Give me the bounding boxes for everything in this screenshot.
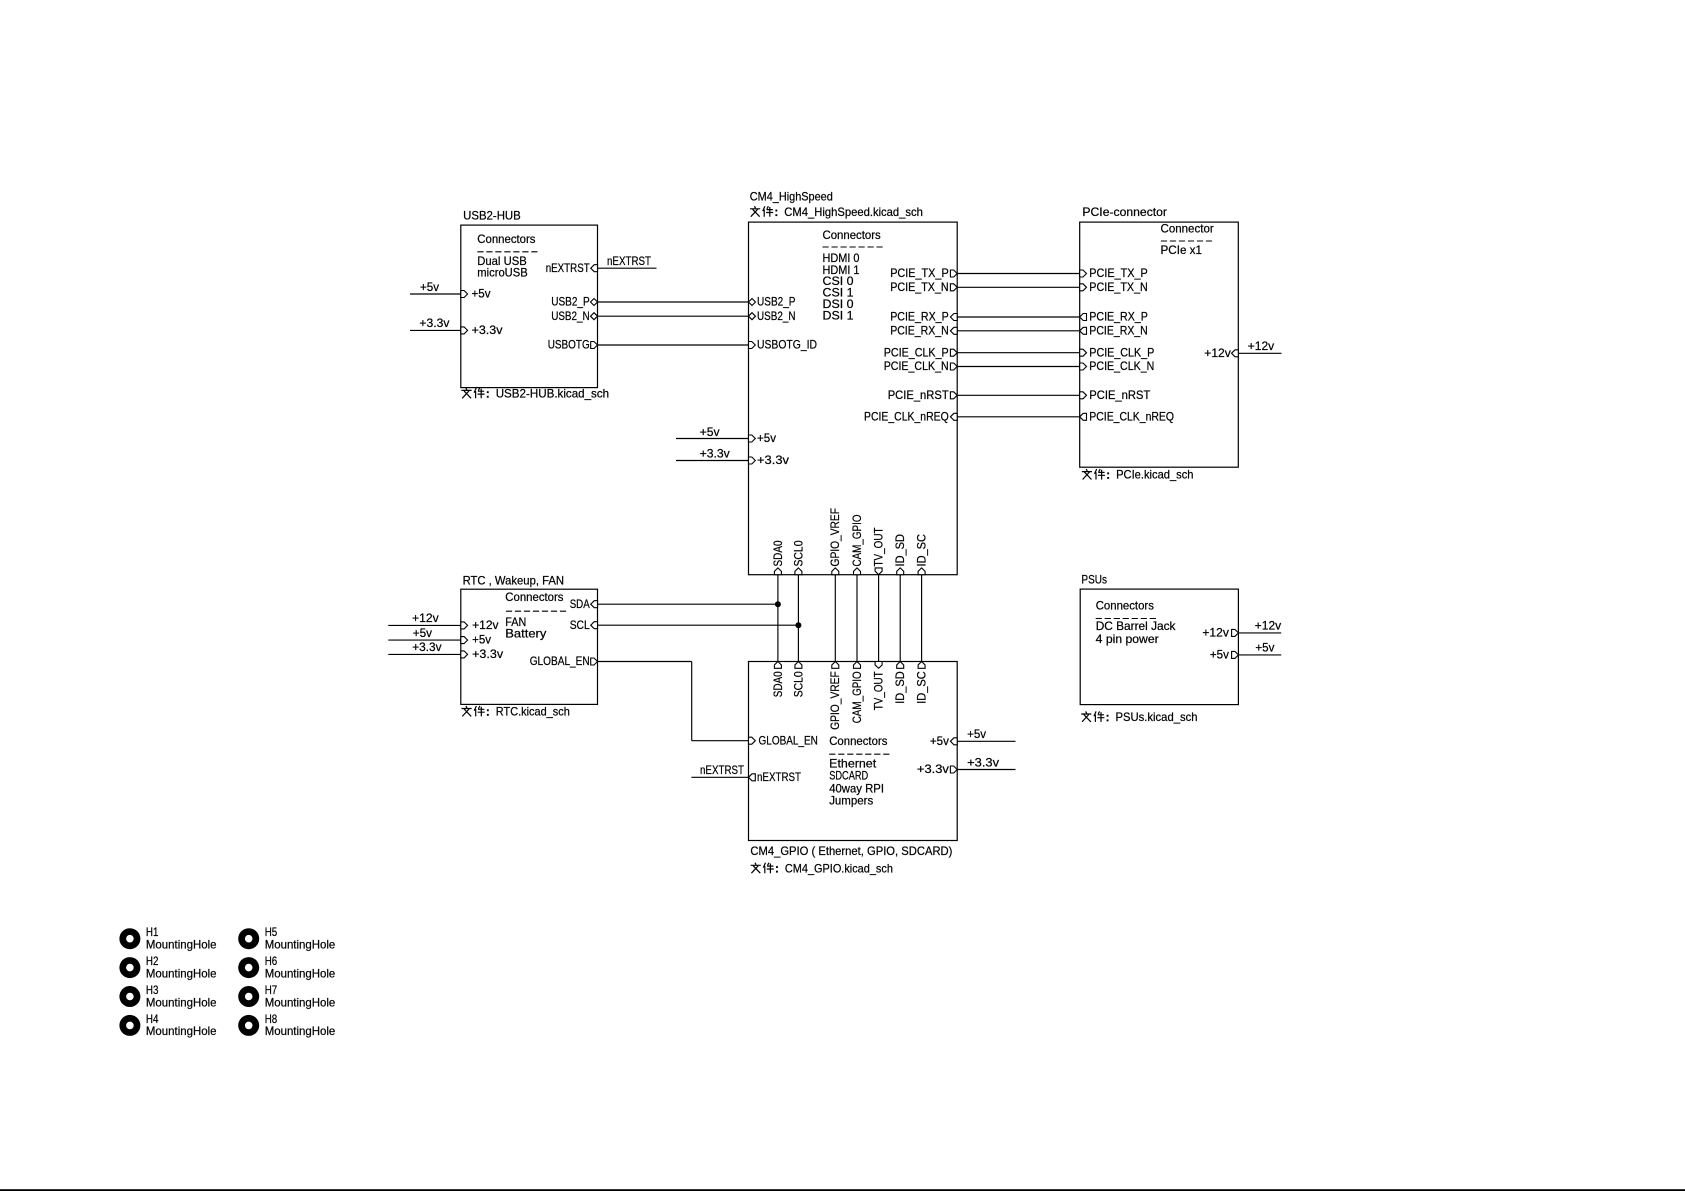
- mounting hole H5: [238, 925, 335, 951]
- svg-text:+5v: +5v: [700, 425, 720, 439]
- hierarchical sheet CM4_GPIO: [749, 662, 958, 859]
- svg-text:+12v: +12v: [1204, 346, 1231, 360]
- mounting hole H8: [238, 1012, 335, 1038]
- sheet pin SDA0 (CM4_GPIO top): [771, 662, 785, 698]
- hierarchical sheet CM4_HighSpeed: [749, 190, 958, 575]
- mounting hole H7: [238, 983, 335, 1009]
- svg-text:+12v: +12v: [1255, 619, 1282, 633]
- sheet pin CAM_GPIO (CM4_GPIO top): [850, 662, 864, 724]
- svg-text:Connectors: Connectors: [829, 734, 887, 748]
- wire +3.3v into RTC: [388, 653, 461, 655]
- svg-text:PCIE_nRST: PCIE_nRST: [888, 388, 950, 402]
- sheet pin PCIE_RX_N (CM4_HighSpeed right): [890, 323, 957, 337]
- wire TV_OUT (CM4_HighSpeed to CM4_GPIO): [878, 575, 880, 662]
- svg-text:microUSB: microUSB: [477, 265, 527, 279]
- svg-text:SDA0: SDA0: [771, 540, 785, 566]
- junction SCL: [795, 622, 801, 628]
- wire +5v into USB2-HUB: [410, 293, 461, 295]
- svg-text:+3.3v: +3.3v: [967, 755, 999, 769]
- svg-text:+5v: +5v: [1255, 641, 1274, 655]
- sheet pin PCIE_TX_N (PCIe-connector left): [1080, 280, 1148, 294]
- wire +3.3v into CM4_HighSpeed: [676, 460, 749, 462]
- svg-text:CAM_GPIO: CAM_GPIO: [850, 671, 864, 723]
- wire GLOBAL_EN horizontal from RTC: [598, 661, 692, 663]
- svg-text:+3.3v: +3.3v: [472, 647, 503, 661]
- wire +12v from PCIe-connector: [1238, 352, 1281, 354]
- sheet pin CAM_GPIO (CM4_HighSpeed bottom): [850, 515, 864, 575]
- svg-text:SCL0: SCL0: [791, 671, 805, 697]
- svg-text:PCIE_nRST: PCIE_nRST: [1089, 388, 1151, 402]
- svg-text:PCIE_RX_N: PCIE_RX_N: [1089, 323, 1148, 337]
- svg-text:ID_SC: ID_SC: [915, 671, 929, 704]
- svg-text:PCIE_TX_P: PCIE_TX_P: [1089, 266, 1148, 280]
- svg-text:+5v: +5v: [472, 287, 491, 301]
- svg-text:PCIE_CLK_N: PCIE_CLK_N: [1089, 359, 1154, 373]
- sheet pin +5v (RTC left): [461, 633, 491, 647]
- svg-text:MountingHole: MountingHole: [146, 995, 217, 1009]
- wire PCIE_CLK_nREQ (CM4_HighSpeed to PCIe-connector): [957, 416, 1079, 418]
- svg-text:MountingHole: MountingHole: [265, 1024, 336, 1038]
- svg-text:RTC.kicad_sch: RTC.kicad_sch: [496, 705, 570, 719]
- sheet file label USB2-HUB.kicad_sch: [461, 386, 609, 400]
- hierarchical sheet RTC Wakeup FAN: [461, 574, 598, 705]
- svg-text:PSUs.kicad_sch: PSUs.kicad_sch: [1116, 710, 1198, 724]
- svg-text:4 pin power: 4 pin power: [1096, 632, 1159, 646]
- svg-text:+5v: +5v: [967, 727, 986, 741]
- wire ID_SD (CM4_HighSpeed to CM4_GPIO): [899, 575, 901, 662]
- wire SCL (RTC to SCL0 bus): [598, 624, 799, 626]
- wire +3.3v into USB2-HUB: [410, 329, 461, 331]
- wire nEXTRST into CM4_GPIO: [691, 776, 748, 778]
- svg-text:PCIE_CLK_P: PCIE_CLK_P: [1089, 345, 1154, 359]
- sheet pin PCIE_nRST (PCIe-connector left): [1080, 388, 1151, 402]
- svg-text:nEXTRST: nEXTRST: [700, 763, 745, 777]
- svg-text:+12v: +12v: [1202, 626, 1229, 640]
- sheet pin TV_OUT (CM4_GPIO top): [872, 662, 886, 711]
- svg-text:Jumpers: Jumpers: [829, 793, 873, 807]
- svg-text:MountingHole: MountingHole: [265, 938, 336, 952]
- sheet pin ID_SD (CM4_HighSpeed bottom): [893, 534, 907, 575]
- svg-text:+3.3v: +3.3v: [472, 323, 503, 337]
- svg-text:+5v: +5v: [413, 626, 432, 640]
- sheet pin SDA0 (CM4_HighSpeed bottom): [771, 540, 785, 574]
- mounting hole H4: [119, 1012, 216, 1038]
- svg-text:USBOTG: USBOTG: [548, 338, 590, 352]
- svg-text:DSI 1: DSI 1: [823, 309, 854, 323]
- sheet pin PCIE_CLK_P (CM4_HighSpeed right): [884, 345, 958, 359]
- sheet pin ID_SC (CM4_GPIO top): [915, 662, 929, 704]
- sheet pin USBOTG_ID (CM4_HighSpeed left): [749, 338, 818, 352]
- svg-text:+12v: +12v: [472, 618, 499, 632]
- svg-text:Battery: Battery: [505, 627, 546, 641]
- sheet file label CM4_GPIO.kicad_sch: [751, 861, 893, 875]
- sheet pin +5v (CM4_HighSpeed left): [749, 431, 777, 445]
- svg-text:USB2_P: USB2_P: [757, 295, 796, 309]
- sheet pin nEXTRST (CM4_GPIO left): [749, 770, 802, 784]
- sheet file label PCIe.kicad_sch: [1082, 468, 1194, 482]
- svg-text:PSUs: PSUs: [1081, 573, 1107, 587]
- svg-text:PCIE_TX_P: PCIE_TX_P: [890, 266, 949, 280]
- mounting hole H1: [119, 925, 216, 951]
- sheet pin PCIE_CLK_N (CM4_HighSpeed right): [884, 359, 958, 373]
- svg-text:PCIe-connector: PCIe-connector: [1082, 205, 1167, 219]
- sheet pin PCIE_TX_P (PCIe-connector left): [1080, 266, 1148, 280]
- svg-text:Connector: Connector: [1161, 221, 1214, 235]
- junction SDA: [775, 601, 781, 607]
- sheet pin +5v (CM4_GPIO right): [930, 734, 957, 748]
- sheet pin +3.3v (USB2-HUB left): [461, 323, 503, 337]
- wire +12v from PSUs: [1238, 632, 1281, 634]
- wire PCIE_TX_P (CM4_HighSpeed to PCIe-connector): [957, 273, 1079, 275]
- svg-text:PCIe.kicad_sch: PCIe.kicad_sch: [1116, 468, 1193, 482]
- sheet pin ID_SD (CM4_GPIO top): [893, 662, 907, 704]
- hierarchical sheet PCIe-connector: [1080, 205, 1239, 467]
- svg-text:TV_OUT: TV_OUT: [872, 527, 886, 567]
- sheet pin PCIE_TX_N (CM4_HighSpeed right): [890, 280, 957, 294]
- wire PCIE_RX_N (CM4_HighSpeed to PCIe-connector): [957, 330, 1079, 332]
- svg-text:+3.3v: +3.3v: [700, 446, 730, 460]
- svg-text:GPIO_VREF: GPIO_VREF: [828, 508, 842, 567]
- svg-text:MountingHole: MountingHole: [265, 966, 336, 980]
- svg-text:MountingHole: MountingHole: [146, 966, 217, 980]
- wire GPIO_VREF (CM4_HighSpeed to CM4_GPIO): [834, 575, 836, 662]
- wire PCIE_nRST (CM4_HighSpeed to PCIe-connector): [957, 394, 1079, 396]
- svg-text:+5v: +5v: [1210, 648, 1229, 662]
- svg-text:USB2_P: USB2_P: [551, 295, 590, 309]
- sheet pin USBOTG (USB2-HUB right): [548, 338, 598, 352]
- wire GLOBAL_EN vertical: [691, 662, 693, 741]
- sheet pin +3.3v (RTC left): [461, 647, 503, 661]
- wire +5v from CM4_GPIO: [957, 740, 1015, 742]
- svg-text:USBOTG_ID: USBOTG_ID: [757, 338, 817, 352]
- svg-text:+3.3v: +3.3v: [412, 640, 441, 654]
- svg-text:GLOBAL_EN: GLOBAL_EN: [759, 733, 818, 747]
- sheet pin ID_SC (CM4_HighSpeed bottom): [915, 534, 929, 575]
- wire +5v into CM4_HighSpeed: [676, 438, 749, 440]
- svg-text:PCIE_TX_N: PCIE_TX_N: [890, 280, 949, 294]
- sheet pin PCIE_RX_P (PCIe-connector left): [1080, 310, 1148, 324]
- wire ID_SC (CM4_HighSpeed to CM4_GPIO): [921, 575, 923, 662]
- svg-text:+5v: +5v: [420, 280, 439, 294]
- wire USBOTG to USBOTG_ID: [598, 344, 749, 346]
- sheet pin +5v (PSUs right): [1210, 648, 1239, 662]
- svg-text:Connectors: Connectors: [823, 228, 881, 242]
- sheet pin TV_OUT (CM4_HighSpeed bottom): [872, 527, 886, 575]
- svg-text:TV_OUT: TV_OUT: [872, 671, 886, 711]
- svg-text:PCIE_CLK_N: PCIE_CLK_N: [884, 359, 949, 373]
- hierarchical sheet PSUs: [1080, 573, 1238, 705]
- sheet file label CM4_HighSpeed.kicad_sch: [750, 205, 923, 219]
- wire +5v into RTC: [388, 639, 461, 641]
- sheet file label RTC.kicad_sch: [462, 705, 570, 719]
- sheet pin PCIE_RX_N (PCIe-connector left): [1080, 323, 1148, 337]
- svg-text:SCL0: SCL0: [791, 540, 805, 566]
- svg-text:CAM_GPIO: CAM_GPIO: [850, 515, 864, 567]
- mounting hole H3: [119, 983, 216, 1009]
- svg-text:MountingHole: MountingHole: [146, 938, 217, 952]
- wire PCIE_TX_N (CM4_HighSpeed to PCIe-connector): [957, 286, 1079, 288]
- sheet pin PCIE_nRST (CM4_HighSpeed right): [888, 388, 958, 402]
- svg-text:+3.3v: +3.3v: [757, 453, 789, 467]
- svg-text:ID_SC: ID_SC: [915, 534, 929, 567]
- svg-text:nEXTRST: nEXTRST: [757, 770, 802, 784]
- mounting hole H2: [119, 954, 216, 980]
- sheet pin nEXTRST (USB2-HUB right): [546, 261, 598, 275]
- svg-text:SCL: SCL: [570, 618, 590, 632]
- sheet pin GPIO_VREF (CM4_HighSpeed bottom): [828, 508, 842, 575]
- sheet pin PCIE_RX_P (CM4_HighSpeed right): [890, 310, 957, 324]
- svg-text:PCIE_CLK_P: PCIE_CLK_P: [884, 345, 949, 359]
- sheet pin SCL0 (CM4_GPIO top): [791, 662, 805, 698]
- sheet pin USB2_N (USB2-HUB right): [551, 309, 597, 323]
- hierarchical sheet USB2-HUB: [461, 208, 598, 387]
- sheet pin PCIE_CLK_nREQ (CM4_HighSpeed right): [864, 409, 957, 423]
- svg-text:PCIE_CLK_nREQ: PCIE_CLK_nREQ: [1089, 409, 1174, 423]
- svg-text:+12v: +12v: [1248, 339, 1275, 353]
- wire nEXTRST (USB2-HUB to open end): [598, 267, 657, 269]
- svg-text:CM4_HighSpeed: CM4_HighSpeed: [750, 190, 833, 204]
- bottom edge black bar: [0, 1189, 1685, 1191]
- svg-text:nEXTRST: nEXTRST: [546, 261, 591, 275]
- svg-text:PCIe x1: PCIe x1: [1161, 243, 1203, 257]
- svg-text:USB2-HUB.kicad_sch: USB2-HUB.kicad_sch: [496, 386, 609, 400]
- sheet pin +5v (USB2-HUB left): [461, 287, 491, 301]
- svg-text:PCIE_TX_N: PCIE_TX_N: [1089, 280, 1148, 294]
- svg-text:PCIE_RX_N: PCIE_RX_N: [890, 323, 949, 337]
- wire PCIE_CLK_P (CM4_HighSpeed to PCIe-connector): [957, 352, 1079, 354]
- svg-text:PCIE_CLK_nREQ: PCIE_CLK_nREQ: [864, 409, 949, 423]
- svg-text:RTC , Wakeup, FAN: RTC , Wakeup, FAN: [463, 574, 564, 588]
- wire USB2_N (USB2-HUB to CM4_HighSpeed): [598, 315, 749, 317]
- svg-text:+3.3v: +3.3v: [419, 316, 449, 330]
- svg-text:USB2_N: USB2_N: [757, 309, 796, 323]
- wire PCIE_CLK_N (CM4_HighSpeed to PCIe-connector): [957, 366, 1079, 368]
- sheet pin +3.3v (CM4_HighSpeed left): [749, 453, 790, 467]
- svg-text:USB2_N: USB2_N: [551, 309, 590, 323]
- wire GLOBAL_EN into CM4_GPIO: [692, 740, 749, 742]
- sheet pin +12v (RTC left): [461, 618, 499, 632]
- svg-text:Connectors: Connectors: [505, 590, 563, 604]
- sheet pin GLOBAL_EN (RTC right): [530, 654, 598, 668]
- sheet pin SCL (RTC right): [570, 618, 598, 632]
- svg-text:GPIO_VREF: GPIO_VREF: [828, 671, 842, 730]
- svg-text:SDA0: SDA0: [771, 671, 785, 697]
- sheet pin USB2_P (USB2-HUB right): [551, 295, 597, 309]
- sheet pin USB2_N (CM4_HighSpeed left): [749, 309, 796, 323]
- wire PCIE_RX_P (CM4_HighSpeed to PCIe-connector): [957, 316, 1079, 318]
- svg-text:MountingHole: MountingHole: [265, 995, 336, 1009]
- svg-text:SDA: SDA: [570, 597, 590, 611]
- wire SDA0 (CM4_HighSpeed to CM4_GPIO): [777, 575, 779, 662]
- mounting hole H6: [238, 954, 335, 980]
- svg-text:ID_SD: ID_SD: [893, 671, 907, 704]
- sheet pin SDA (RTC right): [570, 597, 598, 611]
- sheet pin PCIE_CLK_nREQ (PCIe-connector left): [1080, 409, 1174, 423]
- wire +5v from PSUs: [1238, 654, 1281, 656]
- wire +12v into RTC: [388, 624, 461, 626]
- svg-text:MountingHole: MountingHole: [146, 1024, 217, 1038]
- svg-text:ID_SD: ID_SD: [893, 534, 907, 567]
- svg-text:CM4_GPIO ( Ethernet, GPIO, SDC: CM4_GPIO ( Ethernet, GPIO, SDCARD): [750, 844, 952, 858]
- svg-text:USB2-HUB: USB2-HUB: [463, 208, 521, 222]
- svg-text:Connectors: Connectors: [477, 232, 535, 246]
- sheet pin +3.3v (CM4_GPIO right): [917, 762, 957, 776]
- sheet pin +12v (PCIe-connector right): [1204, 346, 1238, 360]
- svg-text:+12v: +12v: [412, 611, 439, 625]
- svg-text:+5v: +5v: [472, 633, 491, 647]
- wire +3.3v from CM4_GPIO: [957, 769, 1015, 771]
- sheet pin USB2_P (CM4_HighSpeed left): [749, 295, 796, 309]
- sheet file label PSUs.kicad_sch: [1081, 710, 1197, 724]
- sheet pin PCIE_CLK_P (PCIe-connector left): [1080, 345, 1155, 359]
- wire SDA (RTC to SDA0 bus): [598, 603, 778, 605]
- svg-text:+3.3v: +3.3v: [917, 762, 949, 776]
- wire SCL0 (CM4_HighSpeed to CM4_GPIO): [797, 575, 799, 662]
- sheet pin +12v (PSUs right): [1202, 626, 1238, 640]
- svg-text:PCIE_RX_P: PCIE_RX_P: [1089, 310, 1148, 324]
- svg-text:GLOBAL_EN: GLOBAL_EN: [530, 654, 590, 668]
- sheet pin GPIO_VREF (CM4_GPIO top): [828, 662, 842, 730]
- sheet pin GLOBAL_EN (CM4_GPIO left): [749, 733, 818, 747]
- svg-text:CM4_GPIO.kicad_sch: CM4_GPIO.kicad_sch: [785, 861, 893, 875]
- sheet pin PCIE_TX_P (CM4_HighSpeed right): [890, 266, 957, 280]
- svg-text:+5v: +5v: [930, 734, 949, 748]
- svg-text:CM4_HighSpeed.kicad_sch: CM4_HighSpeed.kicad_sch: [784, 205, 923, 219]
- sheet pin SCL0 (CM4_HighSpeed bottom): [791, 540, 805, 574]
- wire USB2_P (USB2-HUB to CM4_HighSpeed): [598, 301, 749, 303]
- svg-text:PCIE_RX_P: PCIE_RX_P: [890, 310, 949, 324]
- svg-text:Connectors: Connectors: [1096, 599, 1154, 613]
- svg-text:+5v: +5v: [757, 431, 776, 445]
- sheet pin PCIE_CLK_N (PCIe-connector left): [1080, 359, 1155, 373]
- wire CAM_GPIO (CM4_HighSpeed to CM4_GPIO): [856, 575, 858, 662]
- svg-text:nEXTRST: nEXTRST: [607, 254, 652, 268]
